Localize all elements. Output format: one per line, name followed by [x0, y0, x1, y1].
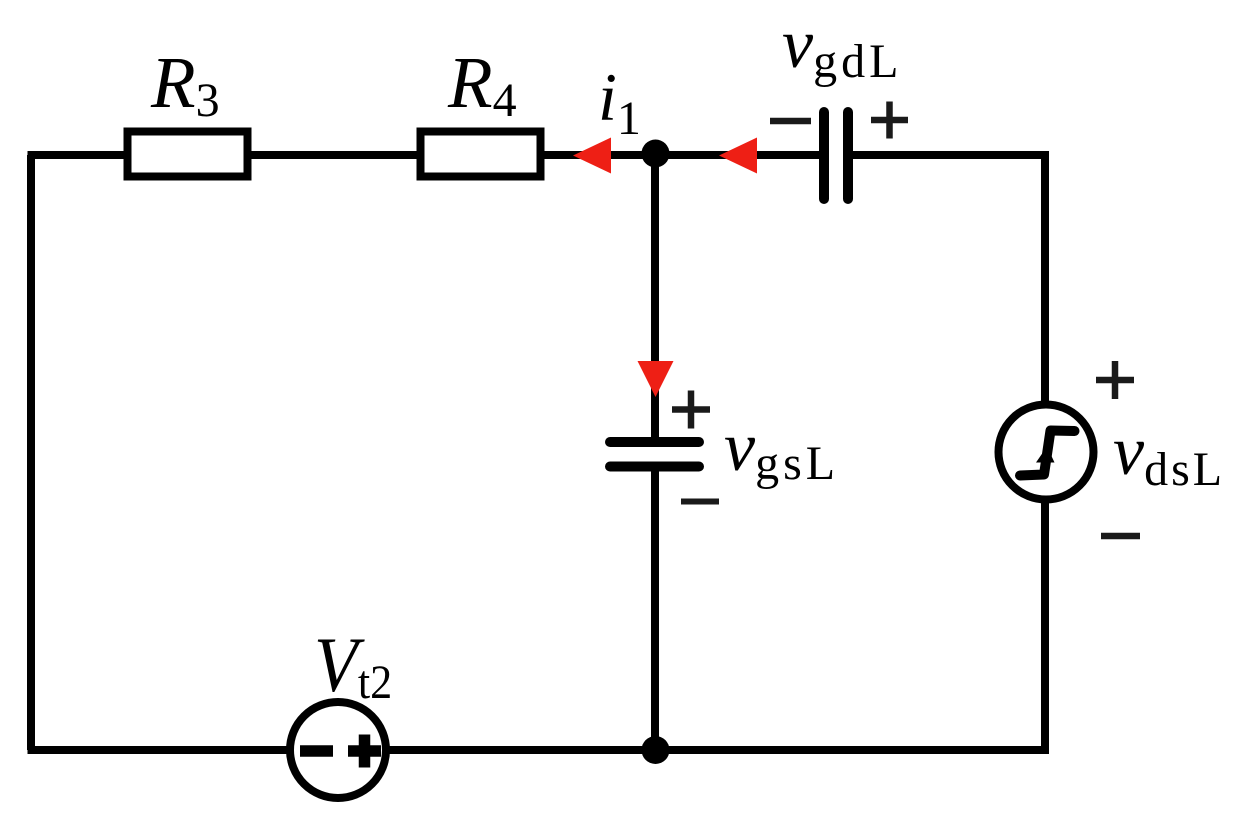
resistor R4	[421, 132, 541, 177]
wire node A to capacitor vgdL	[655, 151, 820, 159]
plus sign of vgdL	[871, 102, 908, 139]
node A junction dot	[642, 140, 670, 168]
bottom node junction dot	[642, 736, 670, 764]
minus sign of vgsL	[681, 499, 719, 505]
wire Vt2 to bottom-left corner	[28, 746, 291, 754]
current arrow i1 (left-pointing, red)	[573, 138, 611, 174]
plus sign of vgsL	[672, 391, 710, 429]
nonlinear source vdsL step glyph	[1020, 431, 1075, 476]
current arrow into node (left-pointing, red)	[719, 138, 757, 174]
capacitor vgsL bottom plate	[610, 462, 699, 472]
plus sign inside Vt2	[348, 735, 381, 768]
wire right vertical lower	[389, 500, 1045, 750]
plus sign of vdsL	[1096, 361, 1134, 399]
capacitor vgdL left plate	[819, 112, 829, 199]
capacitor vgsL top plate	[610, 437, 699, 447]
minus sign of vgdL	[770, 118, 811, 125]
wire left vertical	[27, 155, 35, 750]
resistor R3	[128, 132, 248, 177]
wire right vertical upper	[1041, 151, 1049, 404]
wire middle vertical upper (node A to vgsL)	[651, 155, 659, 437]
wire top-left to R3	[28, 151, 127, 159]
minus sign of vdsL	[1101, 533, 1140, 540]
minus sign inside Vt2	[300, 745, 333, 757]
capacitor vgdL right plate	[843, 112, 853, 199]
wire vgdL to top-right corner	[852, 151, 1045, 159]
wire R3 to R4	[251, 151, 417, 159]
voltage source Vt2 circle	[290, 702, 386, 798]
wire middle vertical lower (vgsL to bottom node)	[651, 471, 659, 750]
current arrow toward vgsL (down-pointing, red)	[638, 361, 674, 397]
nonlinear source vdsL circle	[999, 405, 1094, 500]
wire R4 to node A	[544, 151, 655, 159]
nonlinear source vdsL glyph arrowhead	[1036, 447, 1055, 463]
